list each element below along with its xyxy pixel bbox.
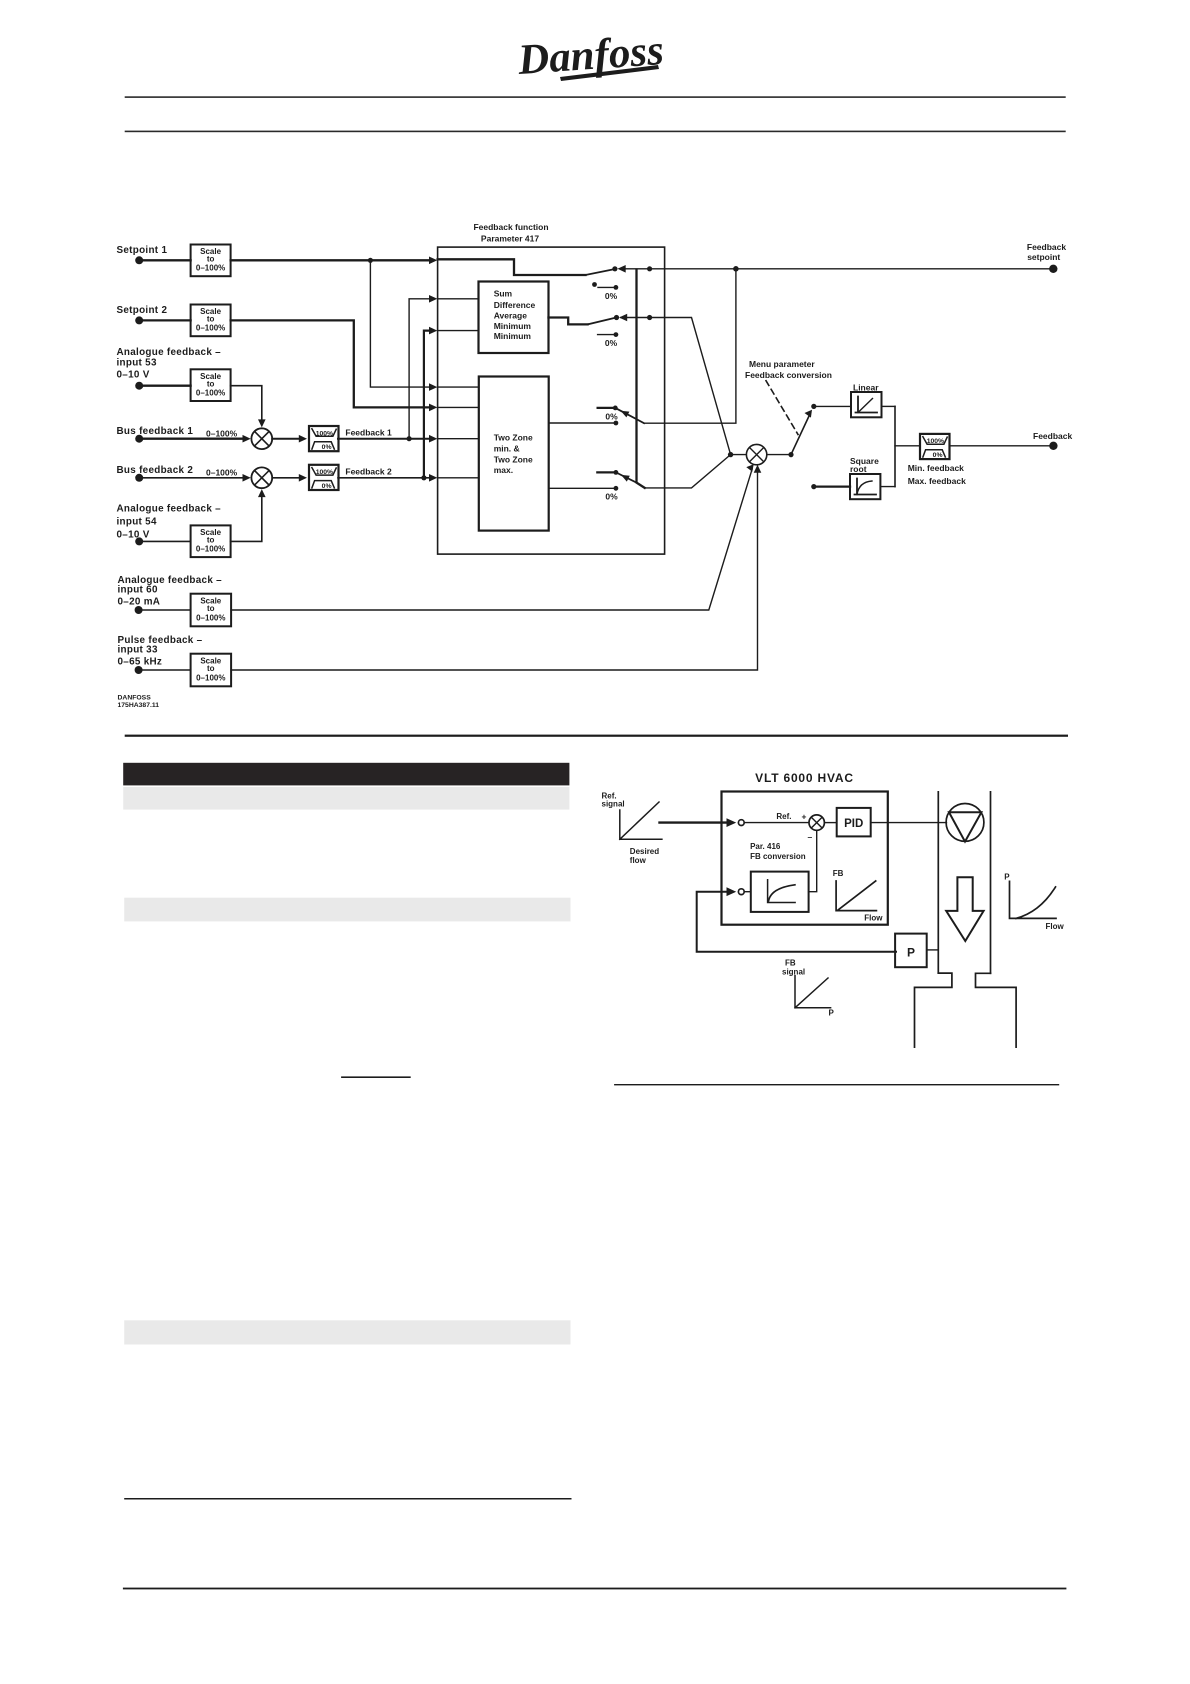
svg-text:0–10 V: 0–10 V <box>117 370 150 381</box>
svg-text:0–100%: 0–100% <box>206 467 238 477</box>
square root input contact dot <box>811 484 816 489</box>
svg-text:signal: signal <box>782 968 805 977</box>
plus sign <box>802 812 807 822</box>
scale box 5 <box>191 594 232 627</box>
conversion output bus vertical <box>894 406 896 486</box>
section header gray bar <box>123 787 569 810</box>
wire feedback setpoint line <box>620 268 1050 270</box>
svg-text:input 53: input 53 <box>117 358 157 369</box>
pipe left wall <box>937 792 939 973</box>
terminal setpoint 2 <box>135 316 143 324</box>
arrow setpoint1 into box <box>429 257 437 265</box>
arrow feedback1 into box <box>429 435 437 443</box>
svg-text:0–100%: 0–100% <box>196 673 225 682</box>
svg-text:Setpoint 2: Setpoint 2 <box>117 305 168 316</box>
arrow input60 into big multiplier <box>746 464 753 472</box>
junction on switch2 line <box>647 315 652 320</box>
svg-text:0–10 V: 0–10 V <box>117 530 150 541</box>
header rule top <box>125 96 1066 98</box>
svg-text:–: – <box>808 832 813 842</box>
P flow graph <box>1004 873 1064 931</box>
terminal input 33 <box>135 666 143 674</box>
wire two-zone input 2 inside <box>438 406 479 408</box>
node Bus feedback 2 label <box>117 465 194 476</box>
label Square root <box>850 456 879 474</box>
flow down arrow <box>946 877 983 941</box>
svg-text:0%: 0% <box>605 338 618 348</box>
junction on feedback setpoint line 2 <box>733 266 739 272</box>
arrow fb into box <box>727 887 737 896</box>
svg-text:0–100%: 0–100% <box>196 264 225 273</box>
switch 4 alternate contact 0% <box>597 470 618 502</box>
wire to linear box <box>814 405 851 407</box>
label 0-100% row5 <box>206 467 238 477</box>
label desired flow <box>630 847 659 865</box>
scale box 4 <box>191 525 231 557</box>
label menu parameter feedback conversion <box>745 359 832 380</box>
svg-text:Feedback 2: Feedback 2 <box>345 467 392 477</box>
wire setpoint1 branch down to two-zone input <box>370 260 430 387</box>
arrow sum input 1 <box>429 295 437 303</box>
fb input node circle <box>738 889 744 895</box>
svg-text:0–100%: 0–100% <box>206 428 238 438</box>
wire bus feedback1 to multiplier <box>142 438 244 440</box>
svg-text:0–65 kHz: 0–65 kHz <box>118 657 163 668</box>
svg-text:FB: FB <box>785 959 796 968</box>
summation circle PID loop <box>809 815 824 830</box>
svg-text:0%: 0% <box>605 412 618 422</box>
limiter box 3 (100%/0%) <box>920 434 950 459</box>
sum function box <box>479 282 549 354</box>
svg-text:0%: 0% <box>605 492 618 502</box>
wire sum input 2 inside <box>438 330 479 332</box>
label FB signal <box>782 959 805 977</box>
svg-text:0–100%: 0–100% <box>196 545 225 554</box>
junction left of big multiplier <box>728 452 733 457</box>
svg-text:Average: Average <box>494 311 528 321</box>
two zone function box <box>479 377 549 531</box>
header rule bottom <box>125 131 1066 133</box>
arrow input33 into big multiplier <box>754 465 762 473</box>
wire ref node to summation <box>744 822 808 824</box>
svg-text:0%: 0% <box>605 291 618 301</box>
underline right column <box>614 1084 1059 1085</box>
svg-text:Max. feedback: Max. feedback <box>908 476 966 486</box>
switch 4 blade <box>618 473 637 482</box>
selector pole dot <box>788 452 793 457</box>
label Par 416 FB conversion <box>750 842 806 861</box>
pipe right wall <box>990 792 992 974</box>
terminal feedback setpoint <box>1049 265 1057 273</box>
multiplier circle 2 <box>251 467 272 488</box>
svg-text:0%: 0% <box>322 444 332 451</box>
svg-text:100%: 100% <box>927 438 944 445</box>
label Ref. inside box <box>776 812 791 821</box>
svg-text:0–100%: 0–100% <box>196 389 225 398</box>
svg-text:175HA387.11: 175HA387.11 <box>118 702 160 709</box>
svg-text:0–100%: 0–100% <box>196 324 225 333</box>
svg-text:signal: signal <box>602 800 625 809</box>
wire limiter3 to feedback terminal <box>950 445 1051 447</box>
VLT main box <box>722 792 888 925</box>
FB signal graph <box>795 976 835 1018</box>
wire setpoint2 route to two-zone input 2 <box>231 320 430 407</box>
wire input60 to scale box <box>142 609 191 611</box>
PID box <box>837 808 871 837</box>
FB flow graph <box>833 869 884 923</box>
node Setpoint 2 label <box>117 305 168 316</box>
node Bus feedback 1 label <box>117 426 194 437</box>
section header black bar <box>123 763 569 786</box>
wire input53 to scale box <box>142 385 191 387</box>
svg-text:max.: max. <box>494 465 513 475</box>
wire junction to big multiplier <box>731 454 747 456</box>
wire bus to limiter 3 <box>895 445 920 447</box>
svg-text:P: P <box>1004 873 1010 882</box>
arrow sum input 2 <box>429 327 437 335</box>
wire setpoint2 to scale box <box>142 319 191 321</box>
terminal input 53 <box>135 382 143 390</box>
label Feedback 1 <box>345 428 392 438</box>
multiplier circle 1 <box>251 428 272 449</box>
wire switch3 output to feedback-setpoint vertical <box>644 269 736 423</box>
svg-text:to: to <box>207 315 215 324</box>
switch 1 alternate contact 0% <box>592 282 618 301</box>
two-zone output 1 stub <box>549 421 619 426</box>
node Analogue feedback input 53 label <box>117 347 222 381</box>
underline short left column <box>341 1076 411 1078</box>
svg-text:0–100%: 0–100% <box>196 613 225 622</box>
svg-text:Flow: Flow <box>864 914 883 923</box>
switch 3 blade <box>618 409 645 423</box>
arrow at switch 1 contact <box>618 265 626 273</box>
venturi right wall <box>976 973 1017 1047</box>
wire summation to PID <box>824 822 836 824</box>
arrow into limiter1 <box>299 435 307 443</box>
left column gray highlight bar 2 <box>124 898 570 922</box>
wire switch4 output to center junction <box>645 455 731 488</box>
svg-text:Feedback 1: Feedback 1 <box>345 428 392 438</box>
arrow into multiplier 2 bottom <box>258 489 266 497</box>
svg-text:input 60: input 60 <box>118 585 158 596</box>
svg-text:0%: 0% <box>322 483 332 490</box>
wire ref signal into VLT box <box>660 821 727 823</box>
pump triangle <box>949 812 981 841</box>
svg-text:min. &: min. & <box>494 443 520 453</box>
svg-text:input 54: input 54 <box>117 517 157 528</box>
label feedback setpoint <box>1027 242 1066 262</box>
label feedback output <box>1033 431 1072 441</box>
svg-text:PID: PID <box>844 818 863 830</box>
wire bus feedback2 to multiplier <box>142 477 244 479</box>
wire multiplier2 to limiter2 <box>272 477 300 479</box>
svg-text:Minimum: Minimum <box>494 331 532 341</box>
P sensor box <box>895 934 927 968</box>
limiter box 1 (100%/0%) <box>309 426 339 451</box>
junction feedback1 <box>407 436 412 441</box>
arrow into limiter2 <box>299 474 307 482</box>
linear box <box>851 392 882 417</box>
svg-text:setpoint: setpoint <box>1027 252 1060 262</box>
svg-text:to: to <box>207 604 215 613</box>
big multiplier circle <box>746 444 766 464</box>
svg-text:to: to <box>207 535 215 544</box>
svg-text:Analogue feedback –: Analogue feedback – <box>117 504 222 515</box>
wire PID to pump <box>871 822 947 824</box>
svg-text:root: root <box>850 464 867 474</box>
terminal feedback <box>1049 442 1057 450</box>
wire setpoint1 inside box to switch 1 <box>438 259 586 275</box>
arrow into multiplier 2 left <box>243 474 251 482</box>
svg-text:to: to <box>207 379 215 388</box>
junction setpoint1 <box>368 258 373 263</box>
svg-text:Two Zone: Two Zone <box>494 454 533 464</box>
svg-text:Sum: Sum <box>494 289 513 299</box>
svg-text:Difference: Difference <box>494 300 536 310</box>
wire feedback2 to big box <box>338 477 430 479</box>
wire fb node to conversion box <box>744 891 751 893</box>
two-zone output 2 stub <box>549 486 619 491</box>
svg-text:Desired: Desired <box>630 847 659 856</box>
label 0-100% row4 <box>206 428 238 438</box>
node Setpoint 1 label <box>117 245 168 256</box>
arrow feedback2 into box <box>429 474 437 482</box>
limiter box 2 (100%/0%) <box>309 465 339 490</box>
label Linear <box>853 383 879 393</box>
wire switch2 output to center junction <box>621 318 731 455</box>
arrow on selector blade <box>805 410 813 418</box>
svg-text:0%: 0% <box>933 452 943 459</box>
wire multiplier1 to limiter1 <box>272 438 300 440</box>
svg-text:Menu parameter: Menu parameter <box>749 359 815 369</box>
svg-text:Par. 416: Par. 416 <box>750 842 781 851</box>
terminal bus feedback 2 <box>135 474 143 482</box>
svg-text:Setpoint 1: Setpoint 1 <box>117 245 168 256</box>
svg-text:Two Zone: Two Zone <box>494 433 533 443</box>
mid page thick rule <box>125 735 1068 737</box>
svg-text:Feedback: Feedback <box>1027 242 1066 252</box>
minus sign <box>808 832 813 842</box>
wire fb signal from P sensor <box>697 892 896 952</box>
ref signal graph <box>602 792 662 840</box>
svg-text:Ref.: Ref. <box>776 812 791 821</box>
linear input contact dot <box>811 404 816 409</box>
junction on feedback setpoint line 1 <box>647 266 652 271</box>
switch 2 contact dot <box>614 315 619 320</box>
selector blade to linear <box>791 415 810 455</box>
svg-text:Analogue feedback –: Analogue feedback – <box>117 347 222 358</box>
arrow on switch 3 blade <box>621 411 630 418</box>
left column gray highlight bar 3 <box>124 1320 570 1344</box>
wire sqrt output to bus <box>880 486 895 488</box>
wire setpoint1 scale box to big box <box>231 259 430 261</box>
svg-text:P: P <box>829 1009 835 1018</box>
svg-text:VLT 6000 HVAC: VLT 6000 HVAC <box>755 771 854 785</box>
wire two-zone input 4 inside <box>438 477 479 479</box>
svg-text:Feedback conversion: Feedback conversion <box>745 370 832 380</box>
switch 1 contact dot <box>612 266 617 271</box>
wire input53 to multiplier 1 <box>231 386 262 420</box>
arrow into multiplier 1 top <box>258 419 266 427</box>
svg-text:+: + <box>802 812 807 822</box>
arrow two-zone input 1 <box>429 383 437 391</box>
scale box 6 <box>191 654 232 687</box>
scale box 2 <box>191 305 231 337</box>
arrow ref into box <box>727 818 737 827</box>
svg-text:input 33: input 33 <box>118 645 158 656</box>
wire input60 to big multiplier diagonal <box>231 469 752 610</box>
switch 3 alternate contact 0% <box>598 406 618 422</box>
wire to square root box <box>816 485 850 487</box>
svg-text:Min. feedback: Min. feedback <box>908 463 964 473</box>
big box Parameter 417 <box>438 247 665 554</box>
terminal setpoint 1 <box>135 256 143 264</box>
svg-text:DANFOSS: DANFOSS <box>118 695 152 702</box>
svg-text:100%: 100% <box>316 430 333 437</box>
svg-text:FB: FB <box>833 869 844 878</box>
scale box 1 <box>191 245 231 277</box>
svg-text:Feedback function: Feedback function <box>473 222 548 232</box>
label DANFOSS part number <box>118 695 160 710</box>
label min max feedback <box>908 463 966 486</box>
node Analogue feedback input 60 label <box>118 575 223 608</box>
wire input54 up to multiplier 2 <box>231 496 262 541</box>
page bottom rule <box>123 1588 1067 1590</box>
wire two-zone input 3 inside <box>438 438 479 440</box>
svg-text:Parameter 417: Parameter 417 <box>481 234 539 244</box>
wire sum input 1 inside <box>438 298 479 300</box>
bus vertical from switch1 to switch4 <box>637 270 645 488</box>
FB conversion box <box>751 872 809 912</box>
terminal input 60 <box>135 606 143 614</box>
switch 1 blade <box>586 269 615 275</box>
wire feedback2 up to sum input 2 <box>424 331 430 478</box>
wire sum output to switch 2 <box>549 318 588 325</box>
pump circle <box>946 804 984 842</box>
label VLT 6000 HVAC <box>755 771 854 785</box>
arrow on switch 4 blade <box>621 475 630 482</box>
terminal bus feedback 1 <box>135 435 143 443</box>
Danfoss logo <box>516 27 666 84</box>
svg-text:Bus feedback 1: Bus feedback 1 <box>117 426 194 437</box>
wire setpoint1 to scale box <box>142 259 191 261</box>
svg-text:0–20 mA: 0–20 mA <box>118 597 161 608</box>
svg-text:flow: flow <box>630 856 647 865</box>
svg-text:Feedback: Feedback <box>1033 431 1072 441</box>
wire linear output to bus <box>882 405 896 407</box>
wire two-zone input 1 inside <box>438 386 479 388</box>
square root box <box>850 474 880 499</box>
dashed annotation line menu parameter <box>766 381 798 435</box>
wire feedback1 to big box <box>338 438 430 440</box>
left column rule <box>124 1498 571 1500</box>
arrow into multiplier 1 left <box>243 435 251 443</box>
svg-text:100%: 100% <box>316 469 333 476</box>
label Feedback 2 <box>345 467 392 477</box>
arrow two-zone input 2 <box>429 404 437 412</box>
diagram title <box>473 222 548 244</box>
switch 2 blade <box>588 318 617 325</box>
wire feedback1 up to sum input 1 <box>409 299 430 439</box>
wire P box to pipe <box>927 949 939 951</box>
junction feedback2 <box>421 475 426 480</box>
terminal input 54 <box>135 537 143 545</box>
svg-text:P: P <box>907 946 915 960</box>
svg-text:to: to <box>207 664 215 673</box>
node Pulse feedback input 33 label <box>118 635 203 668</box>
wire input54 to scale box <box>142 540 191 542</box>
svg-text:Bus feedback 2: Bus feedback 2 <box>117 465 194 476</box>
venturi left wall <box>915 973 952 1047</box>
svg-text:to: to <box>207 255 215 264</box>
wire input33 to big multiplier vertical <box>231 472 757 670</box>
scale box 3 <box>191 369 231 401</box>
svg-text:Minimum: Minimum <box>494 321 532 331</box>
svg-text:Flow: Flow <box>1046 922 1065 931</box>
svg-text:FB conversion: FB conversion <box>750 852 806 861</box>
switch 2 alternate contact 0% <box>598 332 619 348</box>
wire summation down to fb conversion <box>809 830 817 891</box>
wire input33 to scale box <box>142 669 191 671</box>
arrow at switch 2 contact <box>619 314 627 322</box>
wire big multiplier to selector pole <box>767 454 791 456</box>
node Analogue feedback input 54 label <box>117 504 222 541</box>
ref input node circle <box>738 820 744 826</box>
